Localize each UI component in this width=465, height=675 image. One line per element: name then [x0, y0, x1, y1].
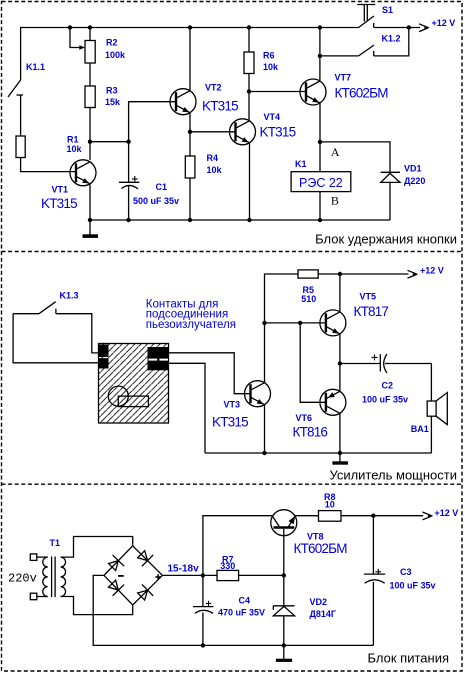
svg-text:K1.2: K1.2 [382, 34, 401, 44]
svg-text:VD2: VD2 [310, 597, 328, 607]
piezo element body (hatched) [99, 344, 169, 424]
svg-text:РЭС 22: РЭС 22 [299, 176, 343, 190]
bridge rectifier diamond [104, 546, 162, 605]
relay K1 PEC22 coil box [291, 172, 351, 192]
svg-text:VT8: VT8 [307, 532, 324, 542]
svg-text:Блок питания: Блок питания [368, 651, 449, 666]
wire: secondary bottom to bridge bottom vertex [61, 597, 133, 615]
svg-text:VT1: VT1 [52, 185, 69, 195]
svg-text:КТ602БМ: КТ602БМ [294, 541, 348, 556]
capacitor C3 100uF 35v (polarized) [364, 516, 385, 646]
wire: speaker to ground rail [430, 416, 432, 453]
wire: junction to C1 top column [90, 141, 129, 143]
node: VT5/VT6 base column junction [298, 321, 302, 325]
wire: ground rail of hold block [90, 219, 390, 221]
node: top rail junction at R6 top [247, 25, 251, 29]
svg-text:А: А [331, 145, 340, 159]
diode VD1 D220 [381, 172, 400, 220]
wire: VT6 emitter up to output node [339, 364, 341, 392]
svg-text:100 uF 35v: 100 uF 35v [390, 581, 436, 591]
node: VT3 emitter on ground rail [262, 451, 266, 455]
wire: VT4 emitter to ground rail [249, 143, 251, 220]
svg-text:KT315: KT315 [212, 415, 248, 430]
piezo disc circle [108, 386, 128, 406]
resistor R3 15k [85, 86, 95, 160]
svg-text:VT7: VT7 [335, 73, 352, 83]
svg-text:C2: C2 [382, 381, 394, 391]
bridge diode top-left [106, 555, 124, 573]
node: C1 column junction [126, 140, 130, 144]
ground: amplifier section [332, 453, 348, 465]
piezo contact pad right [148, 347, 169, 370]
wire: VT7 collector up to K1.2/S1 branch [319, 28, 321, 82]
transformer T1 primary terminal bottom [30, 593, 37, 600]
svg-text:K1.1: K1.1 [26, 62, 45, 72]
wire: bridge plus output to R7 [162, 574, 217, 576]
svg-text:Д220: Д220 [404, 176, 425, 186]
power arrow: +12V middle output [408, 270, 419, 278]
ground: power supply section [276, 645, 292, 662]
zener diode VD2 D814G [273, 575, 294, 645]
svg-text:R6: R6 [263, 51, 275, 61]
svg-text:10k: 10k [67, 144, 83, 154]
capacitor C4 470uF 35V (polarized) [193, 575, 213, 645]
transformer T1 primary terminal top [30, 554, 37, 561]
svg-text:470 uF 35V: 470 uF 35V [218, 608, 265, 618]
node: C1 bottom on ground rail [126, 218, 130, 222]
node: VT7 emitter / relay A / VD1 junction [318, 140, 322, 144]
svg-text:K1: K1 [295, 159, 307, 169]
wire: VT2 emitter to junction [189, 113, 191, 132]
svg-text:Усилитель мощности: Усилитель мощности [329, 468, 457, 483]
node: relay bottom on ground rail [318, 218, 322, 222]
wire: top terminal to primary coil [37, 556, 48, 558]
node: top rail junction at K1.2 right return [407, 25, 411, 29]
svg-text:VT6: VT6 [296, 413, 313, 423]
svg-text:T1: T1 [50, 538, 61, 548]
node: VT4 emitter on ground rail [247, 218, 251, 222]
svg-text:VT5: VT5 [360, 292, 377, 302]
node: zener reference junction (R7 / VD2 / VT8 base) [282, 573, 286, 577]
svg-text:510: 510 [301, 294, 316, 304]
svg-text:220v: 220v [8, 572, 37, 586]
wire: junction to VT7 base [249, 91, 306, 93]
relay contact K1.2 [320, 28, 409, 56]
wire: VT8 emitter to R8 [295, 515, 319, 517]
wire: relay box bottom to ground rail [319, 192, 321, 220]
transistor VT8 KT602BM (NPN, base down) [271, 510, 297, 536]
node: top rail junction at R2 wiper branch [68, 25, 72, 29]
switch K1.3 [13, 302, 56, 314]
node: VD2 bottom / ground junction [282, 643, 286, 647]
svg-text:пьезоизлучателя: пьезоизлучателя [146, 319, 236, 331]
wire: junction to VT4 base [190, 131, 236, 133]
wire: bottom terminal to primary coil [37, 596, 48, 598]
wire: VT7 emitter down to relay node [319, 103, 321, 172]
wire: +12V top rail right segment to arrow [374, 27, 420, 29]
svg-text:10: 10 [325, 500, 335, 510]
svg-text:K1.3: K1.3 [60, 291, 79, 301]
transistor VT6 KT816 (PNP) [320, 389, 346, 415]
switch S1 (push button) [357, 5, 375, 28]
svg-text:VT2: VT2 [205, 83, 222, 93]
node: top rail junction at R2 top [88, 25, 92, 29]
node: top rail junction at VT2 collector [188, 25, 192, 29]
wire: K1.3 to piezo upper-left pad [56, 314, 99, 353]
svg-text:330: 330 [220, 561, 235, 571]
piezo contact pad upper-left [99, 345, 109, 357]
transistor VT7 KT602BM (NPN) [300, 79, 326, 105]
wire: VT5 collector to +12V rail [339, 274, 341, 312]
svg-text:C1: C1 [156, 182, 168, 192]
svg-text:KT315: KT315 [41, 196, 77, 211]
switch K1.1 [8, 80, 23, 136]
transistor VT5 KT817 (NPN) [320, 310, 346, 336]
wire: bridge minus rail [93, 575, 373, 645]
node: R6 bottom / VT7 base junction [247, 89, 251, 93]
piezo contact pad lower-left [99, 358, 109, 368]
speaker BA1 [427, 393, 447, 425]
svg-text:КТ816: КТ816 [293, 425, 328, 440]
wire: VT3 collector up to R5 rail [265, 274, 299, 383]
svg-text:КТ602БМ: КТ602БМ [335, 86, 389, 101]
node: VT1 collector / R3 / C1 branch junction [88, 140, 92, 144]
svg-text:BA1: BA1 [411, 424, 429, 434]
svg-text:Блок удержания кнопки: Блок удержания кнопки [315, 232, 457, 247]
svg-text:15k: 15k [105, 97, 121, 107]
node: VT3 collector / driver junction [262, 321, 266, 325]
wire: left return rail to piezo lower-left pad [13, 314, 98, 363]
wire: junction right to VD1 [320, 142, 390, 172]
svg-text:10k: 10k [263, 62, 279, 72]
wire: C2 to speaker [430, 364, 432, 402]
wire: R1 bottom to VT1 base [21, 158, 76, 172]
svg-text:КТ817: КТ817 [354, 304, 389, 319]
resistor R1 10k [16, 136, 25, 158]
resistor R8 10 [319, 511, 424, 522]
wire: +12V top rail left segment [21, 28, 359, 81]
svg-text:S1: S1 [382, 5, 393, 15]
bridge diode top-right [136, 549, 154, 567]
transistor VT1 KT315 (NPN) [70, 160, 96, 186]
svg-text:Д814Г: Д814Г [310, 609, 337, 619]
svg-text:R4: R4 [207, 153, 219, 163]
svg-text:KT315: KT315 [202, 99, 238, 114]
capacitor C1 500uF 35v (polarized) [119, 176, 139, 220]
wire: VT2 collector to +12V rail [189, 28, 191, 91]
resistor R4 10k [185, 132, 195, 220]
node: R8 right / C3 junction [371, 514, 375, 518]
transistor VT3 KT315 (NPN) [245, 381, 271, 407]
svg-text:C3: C3 [400, 567, 412, 577]
transistor VT2 KT315 (NPN) [170, 89, 196, 115]
power arrow: +12V bottom output [423, 512, 434, 520]
svg-text:+12 V: +12 V [435, 508, 459, 518]
transformer T1 core [52, 557, 56, 598]
svg-text:R3: R3 [106, 86, 118, 96]
svg-text:VD1: VD1 [404, 164, 422, 174]
power arrow: +12V top output [419, 24, 430, 32]
potentiometer wiper arrow into R2 [70, 28, 85, 50]
svg-text:VT4: VT4 [264, 112, 281, 122]
wire: ground rail of amplifier [205, 452, 431, 454]
wire: C1 column up and over to VT2 base [129, 102, 176, 182]
ground: top section [83, 218, 99, 238]
wire: secondary top to bridge top vertex [61, 537, 133, 558]
bridge diode bottom-left [106, 578, 124, 596]
resistor R7 330 [217, 570, 284, 580]
resistor R5 510 [298, 270, 409, 278]
svg-text:+12 V: +12 V [420, 266, 444, 276]
svg-text:100 uF 35v: 100 uF 35v [362, 395, 408, 405]
svg-text:100k: 100k [105, 50, 126, 60]
svg-text:В: В [331, 194, 339, 208]
label plus (bridge) [155, 574, 161, 580]
wire: VT8 base down to zener node [283, 529, 285, 576]
resistor R2 100k [85, 28, 95, 87]
bridge diode bottom-right [136, 584, 154, 602]
transistor VT4 KT315 (NPN) [230, 119, 256, 145]
wire: VT1 emitter to ground rail [89, 184, 91, 220]
resistor R6 10k [244, 28, 254, 121]
capacitor C2 100uF 35v (polarized) [372, 354, 432, 373]
node: R4 bottom on ground rail [188, 218, 192, 222]
node: amplifier output junction [338, 361, 342, 365]
label minus (bridge) [118, 575, 124, 577]
wire: base column down to VT6 base [300, 323, 326, 402]
wire: output node to C2 [340, 363, 380, 365]
svg-text:KT315: KT315 [260, 125, 296, 140]
node: C4 bottom on minus rail [201, 643, 205, 647]
wire: VT5 emitter to output node [339, 334, 341, 364]
svg-text:500 uF 35v: 500 uF 35v [133, 196, 179, 206]
svg-text:R1: R1 [67, 135, 79, 145]
svg-text:15-18v: 15-18v [168, 564, 200, 575]
svg-text:+12 V: +12 V [432, 18, 456, 28]
wire: junction to VT5 base [265, 322, 326, 324]
wire: piezo right pad top to VT3 base [169, 353, 251, 394]
wire: VT6 collector down to ground rail [339, 413, 341, 453]
node: VT2 emitter / R4 / VT4 base junction [188, 130, 192, 134]
wire: raw supply up to VT8 collector [203, 516, 273, 576]
svg-text:C4: C4 [239, 596, 251, 606]
node: top rail junction at S1/K1.2 branch [318, 25, 322, 29]
svg-text:10k: 10k [207, 165, 223, 175]
node: R5 right / VT5 collector junction [338, 272, 342, 276]
wire: piezo right pad bottom to ground rail [169, 363, 206, 453]
node: K1.2 branch junction [318, 54, 322, 58]
svg-text:R2: R2 [106, 38, 118, 48]
svg-text:VT3: VT3 [224, 400, 241, 410]
transformer T1 primary winding [43, 557, 48, 596]
transformer T1 secondary winding [61, 557, 66, 596]
piezo crystal rectangle [118, 396, 148, 407]
node: raw supply junction (C4 / VT8 collector branch) [201, 573, 205, 577]
wire: VT3 emitter down [264, 405, 266, 453]
node: VT6 collector on ground rail [338, 451, 342, 455]
